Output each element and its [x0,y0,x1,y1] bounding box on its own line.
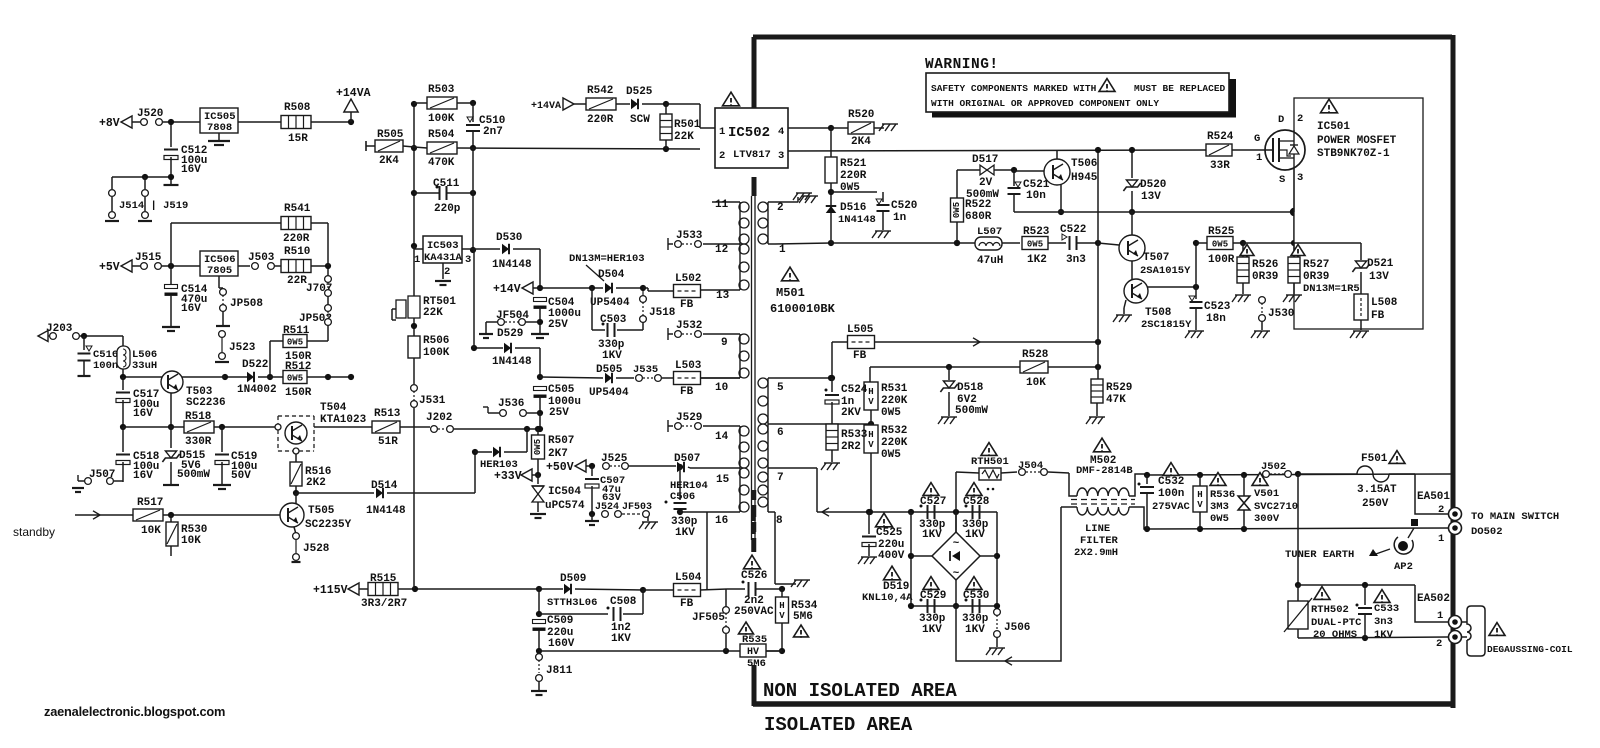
svg-text:C508: C508 [610,596,637,608]
svg-text:0W5: 0W5 [881,449,901,461]
svg-text:220R: 220R [283,233,310,245]
svg-text:R526: R526 [1252,259,1278,271]
svg-text:6100010BK: 6100010BK [770,302,836,316]
svg-text:V: V [1197,500,1203,510]
svg-text:1KV: 1KV [922,624,942,636]
svg-text:R536: R536 [1210,489,1235,501]
svg-text:D520: D520 [1140,179,1166,191]
svg-text:C505: C505 [548,384,575,396]
zener D515 5V6 [170,427,172,448]
svg-text:L508: L508 [1371,297,1398,309]
svg-text:100K: 100K [428,113,455,125]
svg-text:STTH3L06: STTH3L06 [547,597,597,609]
capacitor C528 330p [966,483,982,496]
svg-text:MUST BE REPLACED: MUST BE REPLACED [1134,83,1226,94]
wire IC506 to J503 [238,265,250,267]
svg-text:IC503: IC503 [427,240,459,252]
wire IC502 pin4 [788,127,831,129]
wire T503 emitter to R518 row [170,393,172,427]
wire degauss return [1298,637,1448,638]
svg-text:KA431A: KA431A [424,252,463,264]
svg-text:2: 2 [1438,504,1444,516]
optocoupler IC502 LTV817 [715,108,788,168]
wire AC bottom y606 [911,605,997,607]
svg-text:1KV: 1KV [922,529,942,541]
wire pin5 row [775,377,831,379]
wire IC506 output stub [218,276,220,288]
wire +8V rail [170,122,172,147]
svg-text:33uH: 33uH [132,360,157,372]
junction square [1411,519,1418,526]
svg-text:SVC2710: SVC2710 [1254,501,1298,513]
capacitor C527 330p [923,483,939,496]
svg-text:AP2: AP2 [1394,561,1413,573]
svg-text:~: ~ [953,568,960,580]
svg-text:3: 3 [465,254,471,266]
svg-text:250VAC: 250VAC [734,606,774,618]
jumper J518 [640,296,647,303]
svg-text:1KV: 1KV [965,624,985,636]
svg-text:C525: C525 [876,527,903,539]
svg-text:7: 7 [777,472,784,484]
capacitor C507 47u [591,466,593,476]
wire degauss rail [1297,474,1299,585]
capacitor C518 100u [122,427,124,452]
svg-text:3.15AT: 3.15AT [1357,484,1397,496]
svg-text:1K2: 1K2 [1027,254,1047,266]
svg-text:D530: D530 [496,232,522,244]
svg-text:14: 14 [715,431,729,443]
svg-text:5M6: 5M6 [747,658,766,670]
inductor L506 33uH [117,346,130,369]
resistor R527 0R39 [1293,243,1295,257]
svg-text:J202: J202 [426,412,452,424]
earth tab AP2 [1398,541,1408,551]
svg-text:DEGAUSSING-COIL: DEGAUSSING-COIL [1487,644,1573,655]
module outline IC501 [1294,98,1423,329]
svg-text:FILTER: FILTER [1080,535,1119,547]
svg-text:25V: 25V [549,407,569,419]
capacitor C521 10n [1013,170,1015,186]
svg-text:T506: T506 [1071,158,1097,170]
svg-text:G: G [1254,133,1260,145]
svg-text:L502: L502 [675,273,701,285]
wire AC live rail y475 [1147,474,1452,475]
svg-text:T508: T508 [1145,307,1172,319]
svg-text:2X2.9mH: 2X2.9mH [1074,547,1118,559]
wire IC503 pin3 rail [473,249,475,348]
svg-text:FB: FB [1371,310,1385,322]
warning box frame [926,73,1229,112]
svg-text:D525: D525 [626,86,653,98]
varistor V501 SVC2710 [1252,473,1268,486]
svg-text:3n3: 3n3 [1374,616,1393,628]
svg-text:D522: D522 [242,359,268,371]
svg-text:33R: 33R [1210,160,1230,172]
svg-text:D509: D509 [560,573,586,585]
chassis ground near IC502 [802,195,818,197]
svg-text:D514: D514 [371,480,398,492]
wire D525 to IC502 pin1 [666,103,700,105]
svg-text:300V: 300V [1254,513,1280,525]
jumper J506 [994,609,1001,616]
svg-text:SCW: SCW [630,114,650,126]
svg-text:C520: C520 [891,200,917,212]
resistor R521 220R [825,157,837,183]
degaussing coil [1467,606,1485,656]
svg-text:8: 8 [776,515,783,527]
svg-text:R528: R528 [1022,349,1049,361]
svg-text:J523: J523 [229,342,256,354]
warning IC501 [1321,99,1338,113]
shunt regulator IC503 KA431A [423,236,462,263]
wire R504 to IC502 pin2 [457,148,700,149]
svg-text:10K: 10K [1026,377,1046,389]
isolation border right [1451,35,1456,708]
svg-text:J811: J811 [546,665,573,677]
capacitor C517 100u [122,377,124,390]
svg-text:uPC574: uPC574 [545,500,585,512]
svg-text:J528: J528 [303,543,330,555]
svg-text:0R39: 0R39 [1252,271,1278,283]
wire pin8 to earth [774,512,776,584]
capacitor C526 2n2 [744,555,761,569]
svg-text:R506: R506 [423,335,449,347]
svg-text:51R: 51R [378,436,398,448]
wire IC502 pin3 rail [788,150,1208,151]
svg-text:2K2: 2K2 [306,477,326,489]
warning box shadow [932,112,1236,118]
svg-text:DN13M=1R5: DN13M=1R5 [1303,283,1360,295]
jumper J514 [109,190,116,197]
line filter M502 DMF-2814B [1094,438,1111,452]
svg-text:1: 1 [1256,152,1262,164]
svg-text:9: 9 [721,337,728,349]
svg-text:C526: C526 [741,570,767,582]
wire AC bridge left leg [910,512,912,606]
svg-text:RTH501: RTH501 [971,456,1009,468]
svg-text:D521: D521 [1367,258,1394,270]
transformer secondary winding 11-12 [739,202,741,244]
svg-text:R517: R517 [137,497,163,509]
svg-text:KTA1023: KTA1023 [320,414,367,426]
svg-text:M501: M501 [776,286,805,300]
svg-text:12: 12 [715,244,728,256]
svg-text:SAFETY COMPONENTS MARKED WITH: SAFETY COMPONENTS MARKED WITH [931,83,1097,94]
svg-text:2K7: 2K7 [548,448,568,460]
svg-text:330R: 330R [185,436,212,448]
svg-text:TO MAIN SWITCH: TO MAIN SWITCH [1471,511,1559,523]
svg-text:2SC1815Y: 2SC1815Y [1141,319,1192,331]
capacitor C510 2n7 [472,103,474,122]
transistor T504 KTA1023 [278,416,314,451]
transistor T507 2SA1015Y [1119,235,1145,261]
svg-text:100K: 100K [423,347,450,359]
transformer primary winding 6-7 [767,424,769,468]
resistor R529 47K [1097,150,1099,243]
svg-text:2: 2 [1297,113,1303,125]
svg-text:13V: 13V [1141,191,1161,203]
svg-text:R527: R527 [1303,259,1329,271]
svg-text:V: V [779,611,785,621]
svg-text:R520: R520 [848,109,874,121]
svg-text:2: 2 [777,202,784,214]
thermistor RTH502 DUAL-PTC [1297,585,1299,601]
wire pin1 to main rail y243 [775,243,831,244]
svg-text:13: 13 [716,290,730,302]
wire DC bus y512 [817,511,997,513]
svg-text:D: D [1278,114,1284,126]
transformer M501 label [782,267,799,281]
svg-text:7805: 7805 [207,265,232,277]
svg-text:FB: FB [680,598,694,610]
wire IC505 to R508 [238,121,281,123]
wire D514 to HER103 [474,452,476,493]
svg-text:R505: R505 [377,129,404,141]
svg-text:275VAC: 275VAC [1152,501,1191,513]
svg-text:R513: R513 [374,408,401,420]
svg-text:WARNING!: WARNING! [925,57,999,73]
svg-text:+8V: +8V [99,117,120,130]
svg-text:220K: 220K [881,437,908,449]
transformer secondary winding 15-16 [739,468,741,512]
svg-text:C529: C529 [920,590,946,602]
svg-text:500mW: 500mW [955,405,988,417]
svg-text:H945: H945 [1071,172,1098,184]
resistor R516 2K2 [295,454,297,462]
resistor R526 0R39 [1242,243,1244,257]
svg-text:2V: 2V [979,177,993,189]
svg-text:UP5404: UP5404 [590,297,630,309]
svg-text:C523: C523 [1204,301,1231,313]
svg-text:FB: FB [680,386,694,398]
transformer primary winding 7-8 [767,472,769,507]
svg-text:L504: L504 [675,572,702,584]
capacitor C509 220u [533,620,546,624]
svg-text:10K: 10K [181,535,201,547]
svg-text:LTV817: LTV817 [733,149,771,161]
regulator IC505 [200,108,238,133]
svg-text:D516: D516 [840,202,866,214]
svg-text:1KV: 1KV [675,527,695,539]
svg-text:22K: 22K [423,307,443,319]
svg-text:250V: 250V [1362,498,1389,510]
svg-text:V501: V501 [1254,488,1279,500]
diode HER103 [475,451,492,453]
svg-text:2KV: 2KV [841,407,861,419]
svg-text:EA502: EA502 [1417,593,1450,605]
wire bottom rail to R535 [539,650,741,652]
wire main low rail y377 [123,376,225,378]
wire pin7 to DC bus [775,467,817,469]
svg-text:IC504: IC504 [548,486,581,498]
wire gate drive rail y212 [1014,211,1294,213]
svg-text:2: 2 [444,266,450,278]
svg-text:220R: 220R [840,170,867,182]
svg-text:0W5: 0W5 [287,374,303,384]
resistor R522 680R [956,170,958,198]
svg-text:WITH ORIGINAL OR APPROVED COMP: WITH ORIGINAL OR APPROVED COMPONENT ONLY [931,98,1159,109]
primary pin2 earth [775,201,798,203]
svg-text:22K: 22K [674,131,694,143]
svg-text:1: 1 [1438,533,1444,545]
svg-text:0W5: 0W5 [881,407,901,419]
svg-text:C506: C506 [670,491,695,503]
svg-text:J531: J531 [419,395,446,407]
svg-text:5: 5 [777,382,784,394]
svg-text:J203: J203 [46,323,73,335]
transistor T505 SC2235Y [280,503,304,527]
capacitor C530 330p [966,577,982,590]
wire R508 to +14VA rail [311,121,351,123]
svg-text:SC2235Y: SC2235Y [305,519,352,531]
svg-text:UP5404: UP5404 [589,387,629,399]
svg-text:15: 15 [716,474,730,486]
capacitor C508 1n2 [538,589,540,614]
svg-text:C509: C509 [547,615,573,627]
regulator IC504 uPC574 [537,475,539,484]
thermistor RT501 22K [396,300,406,318]
svg-text:1N4148: 1N4148 [492,259,532,271]
svg-text:100n: 100n [93,360,118,372]
isolation border left upper segment [752,37,757,108]
transformer secondary winding 9-10 [739,334,741,378]
svg-text:D504: D504 [598,269,625,281]
svg-text:16V: 16V [181,303,201,315]
svg-text:2K4: 2K4 [379,155,399,167]
jumper J531 [411,385,418,392]
svg-text:J506: J506 [1004,622,1030,634]
svg-text:20 OHMS: 20 OHMS [1313,629,1357,641]
svg-text:H: H [868,430,873,440]
connector DO502 [1449,522,1462,535]
svg-text:R533: R533 [841,429,868,441]
svg-text:DO502: DO502 [1471,526,1503,538]
svg-text:J514 | J519: J514 | J519 [119,200,188,212]
svg-text:1N4148: 1N4148 [838,214,876,226]
svg-text:15R: 15R [288,133,308,145]
svg-text:0W5: 0W5 [952,202,962,218]
svg-text:T504: T504 [320,402,347,414]
svg-text:J535: J535 [633,364,658,376]
svg-text:2: 2 [719,150,725,162]
svg-text:0W5: 0W5 [1210,513,1229,525]
jumper J811 [536,654,543,661]
svg-text:16: 16 [715,515,728,527]
svg-text:4: 4 [778,126,784,138]
svg-text:2R2: 2R2 [841,441,861,453]
svg-text:H: H [868,387,873,397]
svg-text:100R: 100R [1208,254,1235,266]
svg-text:DUAL-PTC: DUAL-PTC [1311,617,1362,629]
svg-text:1N4148: 1N4148 [366,505,406,517]
svg-text:T507: T507 [1143,252,1169,264]
warning symbol in box [1099,79,1115,92]
svg-text:11: 11 [715,199,729,211]
line filter windings [1077,488,1129,496]
svg-text:FB: FB [680,299,694,311]
svg-text:S: S [1279,174,1285,186]
svg-text:1: 1 [1437,610,1443,622]
svg-text:470K: 470K [428,157,455,169]
zener D520 13V [1131,150,1133,178]
transformer secondary winding 14-15 [739,426,741,468]
transformer secondary winding 12-13 [739,244,741,290]
capacitor C523 18n [1195,243,1197,299]
svg-text:3: 3 [778,150,784,162]
thermistor RTH501 [981,443,997,456]
svg-text:+14VA: +14VA [531,101,561,112]
transformer primary winding 2-1 [767,202,769,244]
capacitor C516 100n [83,336,85,350]
svg-text:10K: 10K [141,525,161,537]
resistor R507 2K7 [532,435,545,459]
capacitor C505 1000u [534,387,547,391]
isolation border bottom [753,701,1455,707]
svg-text:R531: R531 [881,383,908,395]
svg-text:D529: D529 [497,328,523,340]
svg-text:47uH: 47uH [977,255,1003,267]
svg-text:+50V: +50V [546,461,574,474]
isolation dashes over core [751,509,756,521]
svg-text:16V: 16V [181,164,201,176]
svg-text:3R3/2R7: 3R3/2R7 [361,598,407,610]
wire main rail y243 [831,242,1020,244]
svg-text:C524: C524 [841,384,868,396]
svg-text:FB: FB [853,350,867,362]
capacitor C506 330p [679,467,681,500]
bridge rectifier D519 [932,532,980,580]
svg-text:JP508: JP508 [230,298,263,310]
svg-text:J530: J530 [1268,308,1294,320]
capacitor C533 3n3 [1374,590,1390,603]
wire divider top [870,366,1020,368]
isolation border left lower segment [752,665,757,706]
capacitor C514 470u [170,266,172,284]
resistor R531 220K [864,382,878,410]
svg-text:1n: 1n [893,212,906,224]
svg-text:IC502: IC502 [728,125,770,141]
svg-text:1N4148: 1N4148 [492,356,532,368]
svg-text:1: 1 [719,126,725,138]
label D519 KNL10,4A [884,566,901,580]
svg-text:ISOLATED AREA: ISOLATED AREA [764,714,913,736]
svg-text:6: 6 [777,427,784,439]
svg-text:C533: C533 [1374,603,1399,615]
warning small R534 [794,625,809,637]
svg-text:1KV: 1KV [965,529,985,541]
svg-text:2: 2 [1436,638,1442,650]
regulator IC506 [200,251,238,276]
jumper JP508 [220,289,227,296]
jumper J519 [142,190,149,197]
wire R541 branch [171,222,281,224]
svg-text:1KV: 1KV [1374,629,1394,641]
isolation border top [753,35,1452,40]
svg-text:16V: 16V [133,408,153,420]
svg-text:STB9NK70Z-1: STB9NK70Z-1 [1317,148,1390,160]
svg-text:2SA1015Y: 2SA1015Y [1140,265,1191,277]
svg-text:JF505: JF505 [692,612,725,624]
svg-text:3M3: 3M3 [1210,501,1229,513]
inductor L508 FB [1354,294,1368,320]
wire fuse to EA501 [1415,474,1448,514]
resistor R506 100K [408,336,420,358]
svg-text:100n: 100n [1158,488,1184,500]
resistor R535 5M6 [739,622,754,634]
svg-text:D505: D505 [596,364,623,376]
svg-text:500mW: 500mW [177,469,210,481]
